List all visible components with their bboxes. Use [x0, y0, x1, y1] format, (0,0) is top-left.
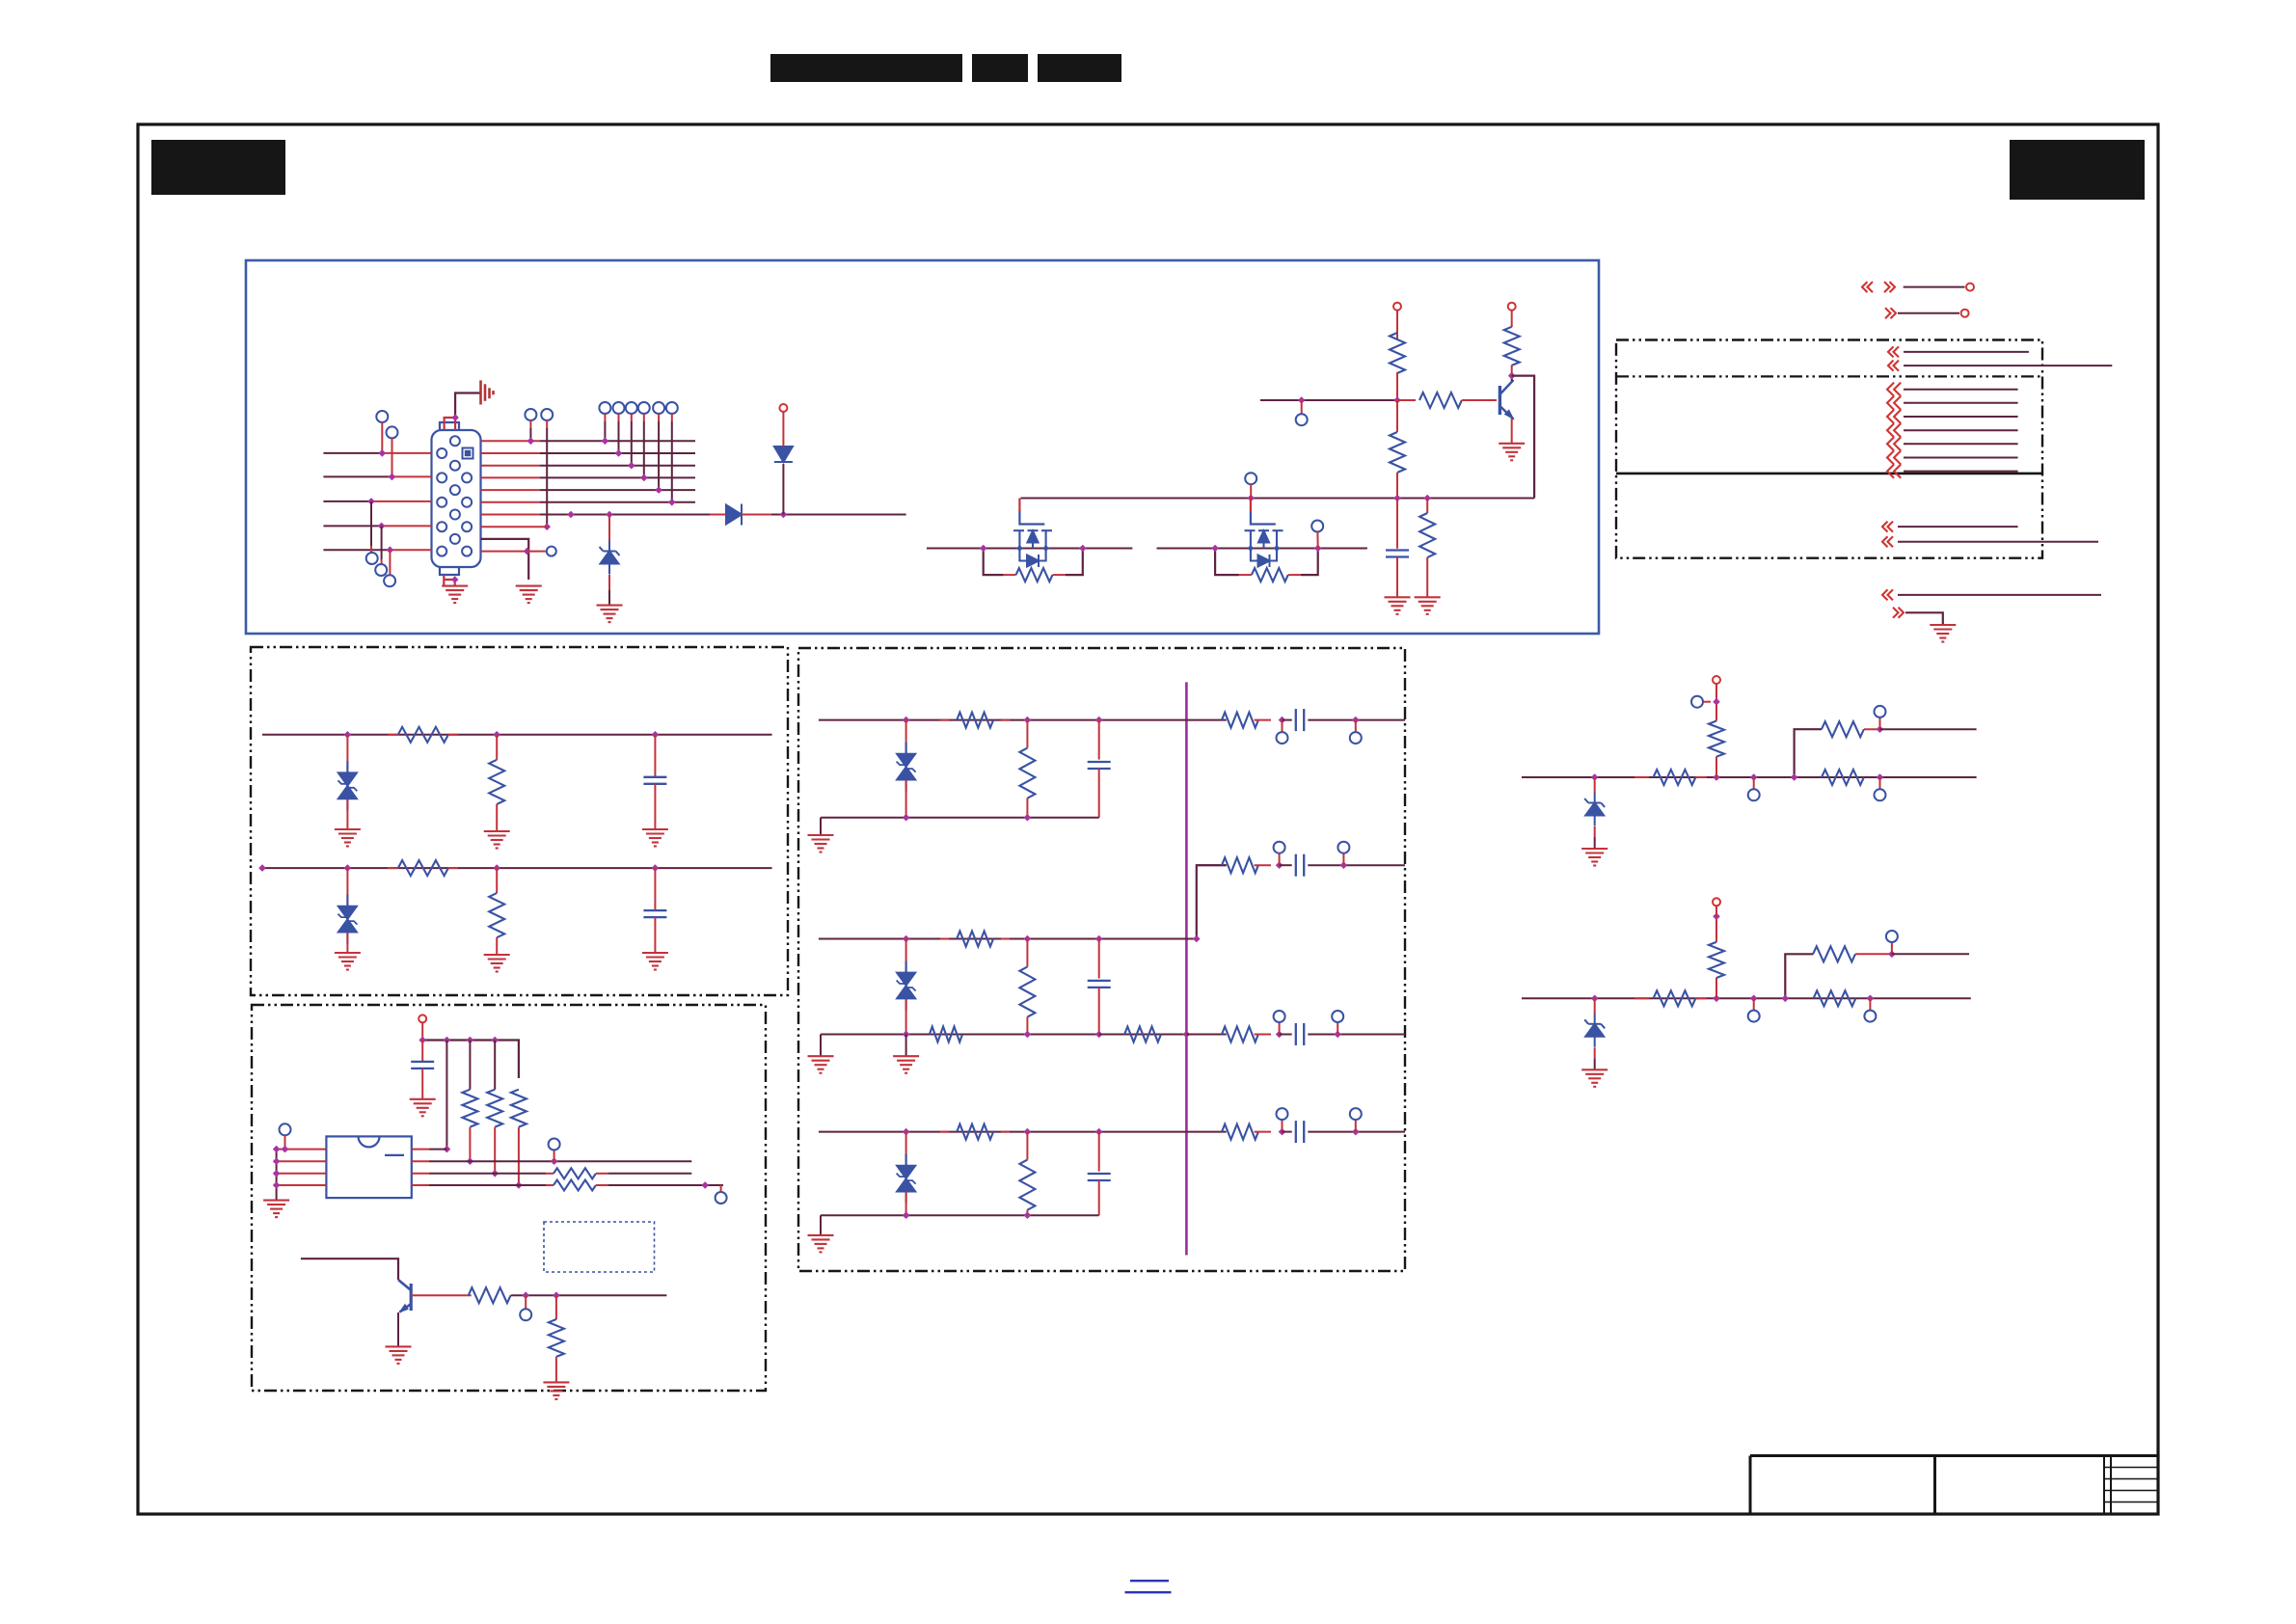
wire CH2 tvs down: [905, 999, 907, 1035]
junction CH2-ret r2: [1334, 1031, 1341, 1039]
ground J1 shell: [442, 586, 468, 604]
wire HS shunt gnd: [496, 804, 498, 831]
resistor HS shunt: [489, 760, 504, 804]
wire J1 left row 5: [323, 549, 390, 551]
terminal circle aux 1: [525, 409, 536, 420]
node arrow band2 line1: [1887, 383, 1901, 396]
wire Q1 collector: [1511, 376, 1513, 381]
junction HS cap: [652, 731, 660, 739]
capacitor VS: [643, 910, 666, 917]
junction HS tvs: [344, 731, 352, 739]
ground arrow: [1930, 625, 1956, 642]
footer underline 1: [1130, 1580, 1169, 1582]
junction aux 2: [543, 523, 551, 530]
wire mosfet1 segment: [927, 548, 1132, 550]
power terminal N1: [1713, 676, 1720, 684]
junction left 3: [367, 498, 375, 505]
resistor R1 vertical: [1390, 333, 1405, 373]
terminal circle N2 upper: [1886, 931, 1898, 942]
wire Q2 bypass red left: [1004, 574, 1016, 576]
junction VS cap: [652, 864, 660, 872]
junction CH1 shunt: [1024, 717, 1032, 724]
junction CH2 rail left: [903, 1031, 910, 1039]
wire CH2-ret right b: [1308, 1034, 1405, 1036]
junction N1 upper: [1877, 725, 1884, 733]
terminal circle SDA: [549, 1139, 560, 1150]
wire VS tvs gnd: [346, 933, 348, 953]
power terminal VCC DDC: [419, 1015, 426, 1022]
stub left 2: [392, 438, 393, 476]
wire N2 branch: [1785, 954, 1813, 998]
wire VCC drop: [421, 1022, 423, 1041]
node arrow band2 line6: [1887, 450, 1901, 464]
junction CH2 branch: [1193, 935, 1201, 943]
wire CH1 main: [819, 719, 1187, 721]
wire row C4: [481, 526, 548, 528]
J1 pin square (pin 10): [463, 448, 473, 459]
wire CH1-out right a: [1186, 719, 1226, 721]
resistor R5 vertical: [1419, 513, 1435, 557]
mosfet Q2 body: [1019, 530, 1045, 560]
black title box top-right: [2010, 140, 2145, 200]
junction U1 pin1: [282, 1146, 289, 1153]
wire CH2-out mid: [1280, 864, 1292, 866]
junction row1 right: [444, 1146, 451, 1153]
ground HS shunt: [484, 831, 510, 849]
junction CH2 rail tvs: [903, 1031, 910, 1039]
ground HS cap: [642, 829, 668, 847]
wire base node: [1260, 399, 1397, 401]
resistor CH1 shunt: [1019, 748, 1035, 798]
wire J1 left row 4: [323, 525, 381, 527]
terminal circle left 5: [384, 575, 395, 586]
junction left 1: [379, 449, 387, 457]
wire row B5 to ground: [481, 539, 529, 580]
stub CH2-ret c1: [1279, 1022, 1281, 1035]
junction left 5: [387, 546, 394, 554]
terminal circle base: [1296, 414, 1308, 425]
junction row3 mid: [491, 1170, 499, 1177]
ground N2: [1581, 1069, 1607, 1087]
junction U1 left 4: [273, 1181, 281, 1189]
terminal circle left 2: [387, 426, 398, 438]
terminal circle bus 6: [666, 402, 678, 414]
junction N2 top: [1713, 913, 1720, 921]
wire CH3-out mid: [1283, 1131, 1292, 1133]
junction U1 left 3: [273, 1170, 281, 1177]
wire drop bus 5: [658, 414, 660, 421]
diode D2 down: [774, 447, 793, 462]
terminal circle left 4: [375, 564, 387, 576]
junction CH3 rail tvs: [903, 1211, 910, 1219]
junction VCC 2: [444, 1037, 451, 1044]
connector box divider: [1616, 375, 2042, 377]
resistor CH2 rail 2: [1124, 1027, 1161, 1042]
junction N1 tap: [1750, 773, 1758, 781]
junction CH2 shunt: [1024, 935, 1032, 943]
resistor N2 lower: [1814, 990, 1856, 1006]
stub N2 tap: [1753, 998, 1755, 1010]
wire J1 left row 3: [323, 501, 371, 502]
J1 pins column A: [437, 448, 446, 556]
junction base node left: [1298, 396, 1306, 404]
terminal circle N2 tap: [1748, 1011, 1760, 1022]
ground shunt Q4: [543, 1382, 569, 1399]
ground CH2 tvs: [893, 1056, 919, 1073]
capacitor CH2-ret series: [1296, 1023, 1304, 1045]
ground U1: [263, 1201, 289, 1218]
junction CH1-out r2: [1352, 717, 1360, 724]
capacitor HS: [643, 777, 666, 784]
stub U1 pin1: [284, 1135, 286, 1149]
stub CH3-out c2: [1355, 1120, 1357, 1132]
ground C5: [1385, 597, 1411, 614]
node arrow to ground: [1893, 608, 1904, 618]
terminal circle mosfet2: [1311, 521, 1323, 532]
wire VS tvs stub: [346, 868, 348, 906]
power terminal D2: [779, 404, 787, 412]
wire CH2-out right a: [1197, 864, 1227, 866]
junction bus 6: [668, 499, 676, 506]
wire CH1 tvs down: [905, 780, 907, 818]
wire cap VCC stub: [421, 1041, 423, 1062]
wire Q4 emitter: [397, 1313, 399, 1346]
mosfet Q2 body diode: [1027, 555, 1039, 567]
wire U1 pin1: [277, 1149, 327, 1150]
wire R1 to node: [1396, 372, 1398, 400]
wire D2 vertical: [782, 464, 784, 515]
power terminal R-pullup 1: [1393, 303, 1401, 311]
junction rail mosfet2: [1247, 495, 1255, 502]
stub CH1-out c1: [1282, 720, 1283, 733]
junction shell bottom: [451, 576, 459, 583]
wire CH2 branch: [1197, 865, 1227, 938]
wire CH2 tvs gnd2: [905, 1035, 907, 1057]
resistor N1 lower: [1822, 770, 1864, 785]
terminal circle CH1-out 2: [1350, 732, 1362, 744]
terminal circle CH1-out 1: [1277, 732, 1288, 744]
TVS diode CH2: [897, 961, 916, 1011]
junction bus 1: [602, 438, 609, 446]
wire bus row 3: [481, 465, 540, 467]
node arrow band3 line2: [1882, 536, 1893, 547]
terminal circle bus 1: [599, 402, 610, 414]
junction bus 2: [615, 449, 623, 457]
ground N1: [1581, 849, 1607, 866]
wire R2 to collector: [1511, 365, 1513, 376]
wire node to Rbase: [1397, 399, 1416, 401]
terminal circle CH2-out 1: [1274, 842, 1285, 853]
ground zener: [597, 606, 623, 623]
title block divider line top: [1750, 1454, 2158, 1457]
wire cap stub: [1396, 499, 1398, 549]
stub N1 side circle: [1703, 701, 1711, 703]
junction main 1: [567, 511, 575, 519]
junction Q4 shunt: [553, 1291, 560, 1299]
wire N1 main: [1522, 776, 1977, 778]
wire Q2 bypass red right: [1053, 574, 1066, 576]
wire CH3-out right a: [1186, 1131, 1226, 1133]
node arrow band2 line2: [1887, 396, 1901, 410]
wire HS cap gnd: [654, 784, 656, 829]
wire U1 left common: [276, 1150, 278, 1185]
junction row4 mid: [515, 1181, 523, 1189]
wire VS shunt gnd: [496, 937, 498, 955]
page connector arrow 2: [1885, 308, 1896, 318]
resistor N2 series: [1634, 997, 1649, 999]
junction Q2 left: [980, 545, 987, 553]
resistor CH2 rail 1: [930, 1027, 962, 1042]
wire aux 2 drop: [546, 420, 548, 428]
ground C-DDC: [410, 1099, 436, 1117]
stub left row5 down: [389, 550, 391, 575]
power terminal pc1: [1966, 284, 1974, 291]
wire collector loop: [1512, 376, 1534, 499]
wire shunt stub Q4: [555, 1295, 557, 1319]
wire CH2 rail gnd: [820, 1035, 822, 1057]
wire row4 b: [596, 1184, 608, 1186]
junction N1 branch: [1791, 773, 1798, 781]
wire Q1 emitter to ground: [1511, 419, 1513, 444]
wire gate rail: [1021, 498, 1535, 500]
wire N1 pullup top: [1715, 684, 1717, 721]
wire res stub: [1426, 499, 1428, 514]
mosfet Q3 gate wire: [1251, 499, 1276, 525]
dash-dot connector box: [1616, 340, 2042, 558]
junction CH2 rail purple: [1183, 1031, 1191, 1039]
stub CH1-out c2: [1355, 720, 1357, 733]
junction CH2 rail cap: [1095, 1031, 1103, 1039]
resistor R row4: [554, 1180, 596, 1191]
TVS diode HS: [338, 761, 357, 810]
J1 pins column B: [450, 436, 460, 544]
wire N2 main: [1522, 997, 1971, 999]
resistor Rp2: [487, 1090, 502, 1127]
wire bus row 2: [481, 452, 540, 454]
stub SDA circle: [554, 1150, 555, 1162]
junction N2 zener: [1591, 995, 1599, 1003]
wire node to R4: [1396, 400, 1398, 432]
junction bus 3: [628, 462, 635, 470]
capacitor CH2-out series: [1296, 854, 1304, 877]
wire CH2 tvs stub: [905, 939, 907, 973]
zener diode D3: [600, 541, 620, 575]
wire CH2 main ext: [1186, 938, 1196, 940]
wire N1 vres stub: [1715, 757, 1717, 778]
junction N1 top: [1713, 698, 1720, 706]
terminal circle N2 lower: [1864, 1011, 1876, 1022]
junction CH2-ret r1: [1276, 1031, 1283, 1039]
wire zener to ground: [608, 575, 610, 590]
wire Q4 base: [411, 1294, 472, 1296]
junction N2 branch: [1782, 995, 1790, 1003]
wire R4 to rail: [1396, 473, 1398, 499]
stub CH2-out c1: [1279, 853, 1281, 866]
resistor N1 series: [1634, 776, 1649, 778]
junction HS shunt: [493, 731, 500, 739]
node arrow below box: [1882, 589, 1893, 600]
resistor VS series: [388, 867, 398, 869]
wire Q3 bypass red left: [1239, 574, 1252, 576]
junction CH3-out r2: [1352, 1128, 1360, 1136]
wire CH2 main: [819, 938, 1187, 940]
junction VS tvs: [344, 864, 352, 872]
junction VS rail left: [258, 864, 266, 872]
node arrow band2 line7: [1887, 465, 1901, 478]
wire shunt gnd Q4: [555, 1357, 557, 1383]
ground CH1: [808, 835, 834, 853]
wire CH1-out right b: [1308, 719, 1405, 721]
wire pullup R stub 1: [469, 1041, 471, 1090]
resistor R base Q4: [469, 1287, 511, 1303]
top redaction bar 2: [972, 54, 1028, 82]
wire drop bus 1: [604, 414, 606, 421]
power terminal N2: [1713, 898, 1720, 906]
junction bus 4: [640, 474, 648, 482]
wire cap VCC gnd: [421, 1069, 423, 1099]
zener diode N2: [1584, 1014, 1605, 1047]
junction row2 mid: [467, 1157, 474, 1165]
wire drop bus 2: [618, 414, 620, 421]
wire row3 b: [596, 1173, 608, 1175]
junction N2 vres: [1713, 995, 1720, 1003]
wire SCL row1: [412, 1149, 429, 1150]
TVS diode VS: [338, 895, 357, 944]
wire base node Q4: [511, 1294, 667, 1296]
junction CH2 cap: [1095, 935, 1103, 943]
wire CH1 shunt stub: [1026, 720, 1028, 748]
junction CH2-out r2: [1340, 861, 1348, 869]
dash-dot box sync filters: [251, 647, 788, 995]
title block left edge: [1749, 1456, 1752, 1515]
wire arrow ground: [1905, 612, 1943, 625]
junction CH1-out r1: [1279, 717, 1286, 724]
junction CH3 cap: [1095, 1128, 1103, 1136]
wire J1 left row 1: [323, 452, 382, 454]
stub row C5: [527, 551, 546, 553]
junction CH1 tvs: [903, 717, 910, 724]
terminal circle N1 upper: [1875, 706, 1886, 717]
wire CH3 tvs stub: [905, 1132, 907, 1166]
wire U1 pin2: [277, 1160, 327, 1162]
capacitor C5: [1386, 551, 1409, 557]
wire CH1 cap down: [1098, 769, 1100, 818]
ground Q4: [386, 1346, 412, 1364]
wire CH2 rail ext: [1099, 1034, 1187, 1036]
transistor Q4: [398, 1280, 411, 1313]
resistor CH1-out right: [1222, 713, 1258, 728]
junction CH3 tvs: [903, 1128, 910, 1136]
wire VS cap gnd: [654, 917, 656, 953]
junction CH2 rail shunt: [1024, 1031, 1032, 1039]
resistor R4 vertical: [1390, 432, 1405, 473]
stub N1 lower circle: [1879, 777, 1881, 789]
chassis shield ground: [481, 380, 494, 404]
wire CH2 rail: [821, 1034, 1099, 1036]
junction VCC 4: [491, 1037, 499, 1044]
title block cell divider: [1933, 1456, 1936, 1515]
junction VCC 1: [419, 1037, 426, 1044]
junction N1 lower: [1877, 773, 1884, 781]
zener diode N1: [1584, 793, 1605, 826]
ground Q1: [1499, 444, 1525, 461]
junction rail res: [1423, 495, 1431, 502]
wire CH3 tvs down: [905, 1192, 907, 1215]
capacitor C-DDC: [411, 1062, 434, 1069]
resistor VS shunt: [489, 893, 504, 937]
ground VS tvs: [335, 953, 361, 970]
dash-dot box video filters: [798, 648, 1405, 1271]
junction shield: [451, 414, 459, 421]
wire N1 upper out: [1880, 728, 1977, 730]
stub N1 tap: [1753, 777, 1755, 789]
wire N2 vres stub: [1715, 978, 1717, 999]
wire CH1 rail: [821, 817, 1099, 819]
junction CH2-out r1: [1276, 861, 1283, 869]
wire J1 shell bottom to ground: [444, 575, 454, 586]
dotted note box: [544, 1222, 655, 1272]
capacitor CH1: [1088, 762, 1111, 769]
wire HS shunt stub: [496, 735, 498, 760]
wire D2 to terminal: [782, 412, 784, 447]
wire VS rail: [262, 867, 772, 869]
junction rail cap: [1393, 495, 1401, 502]
wire N1 zener gnd: [1594, 826, 1596, 837]
node arrow band2 line3: [1887, 410, 1901, 423]
junction CH1 cap: [1095, 717, 1103, 724]
terminal circle aux 2: [541, 409, 553, 420]
wire CH3 rail: [821, 1214, 1099, 1216]
terminal circle CH2-ret 1: [1274, 1011, 1285, 1022]
ground HS tvs: [335, 829, 361, 847]
wire Q4 collector: [301, 1259, 398, 1280]
resistor CH2-ret right: [1222, 1027, 1258, 1042]
junction N2 upper: [1888, 951, 1896, 959]
resistor CH2 shunt: [1019, 967, 1035, 1017]
wire mosfet2 segment: [1157, 548, 1367, 550]
wire CH2 cap down: [1098, 988, 1100, 1035]
junction row C5: [524, 548, 531, 555]
bus line purple: [1185, 682, 1188, 1255]
resistor CH2 series: [940, 938, 949, 940]
stub N1 upper circle: [1879, 717, 1881, 729]
node arrow band2 line4: [1887, 423, 1901, 437]
wire N2 zener gnd: [1594, 1047, 1596, 1058]
wire J1 left row 2: [323, 475, 392, 477]
stub N2 lower circle: [1869, 998, 1871, 1010]
junction aux 1: [527, 438, 535, 446]
title block revision rows: [2104, 1468, 2158, 1502]
stub N2 upper circle: [1891, 942, 1893, 954]
junction CH2 tvs: [903, 935, 910, 943]
wire HS rail: [262, 734, 772, 736]
wire main after D1: [771, 514, 906, 516]
resistor CH2-out right: [1222, 857, 1258, 873]
wire N2 upper out: [1892, 953, 1969, 955]
terminal circle N1 tap: [1748, 789, 1760, 800]
wire N2 pullup top: [1715, 916, 1717, 942]
transistor Q1: [1499, 380, 1513, 420]
footer underline 2: [1125, 1591, 1172, 1593]
junction VCC 3: [467, 1037, 474, 1044]
mosfet Q3 source/drain junctions: [1248, 545, 1255, 552]
black title box top-left: [151, 140, 285, 195]
resistor N2 pullup: [1709, 942, 1724, 978]
terminal circle CH3-out 1: [1277, 1108, 1288, 1120]
blue section box: [246, 260, 1599, 634]
junction CH3 rail shunt: [1024, 1211, 1032, 1219]
junction Q2 right: [1079, 545, 1087, 553]
